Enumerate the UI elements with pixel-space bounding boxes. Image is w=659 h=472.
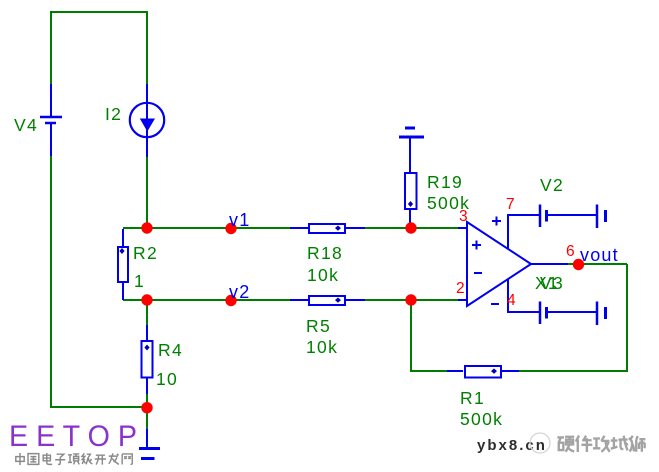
svg-text:10: 10 — [156, 369, 178, 389]
svg-text:R18: R18 — [307, 243, 343, 263]
svg-text:500k: 500k — [460, 409, 503, 429]
svg-text:V3: V3 — [540, 273, 564, 293]
svg-text:v2: v2 — [229, 282, 250, 302]
svg-text:ybx8.cn: ybx8.cn — [477, 437, 547, 454]
svg-text:R2: R2 — [133, 243, 158, 263]
svg-text:v1: v1 — [229, 210, 250, 230]
svg-text:6: 6 — [566, 243, 575, 260]
svg-text:2: 2 — [456, 280, 465, 297]
svg-text:R4: R4 — [158, 340, 183, 360]
svg-text:4: 4 — [507, 292, 516, 309]
svg-text:10k: 10k — [307, 265, 339, 285]
svg-text:vout: vout — [580, 245, 619, 265]
svg-text:I2: I2 — [105, 104, 122, 124]
svg-text:E E T O P: E E T O P — [9, 420, 137, 453]
svg-text:R1: R1 — [460, 388, 485, 408]
svg-text:10k: 10k — [306, 337, 338, 357]
svg-text:R5: R5 — [306, 316, 331, 336]
svg-text:V2: V2 — [540, 175, 564, 195]
svg-text:R19: R19 — [427, 172, 463, 192]
svg-text:7: 7 — [506, 196, 515, 213]
svg-text:3: 3 — [459, 208, 468, 225]
svg-text:1: 1 — [134, 271, 145, 291]
svg-text:V4: V4 — [14, 115, 38, 135]
